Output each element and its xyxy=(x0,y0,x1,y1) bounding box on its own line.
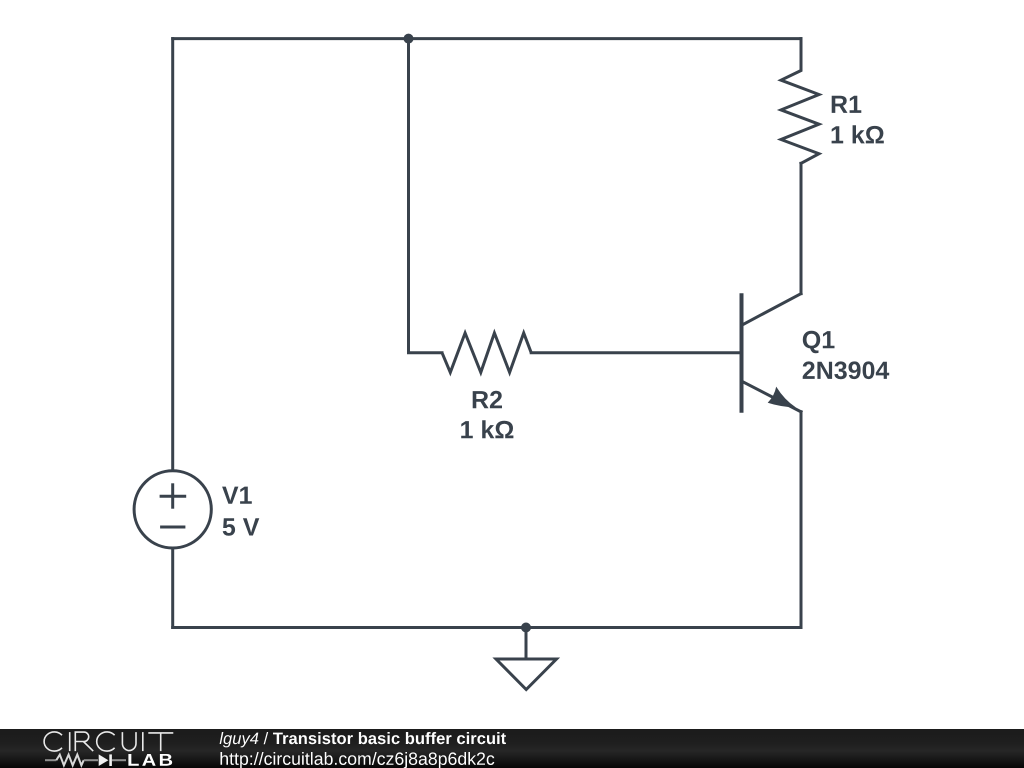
wire ground stub xyxy=(525,628,528,659)
footer url xyxy=(221,752,495,768)
wire bottom horizontal xyxy=(173,626,801,629)
label V1 value 5 V xyxy=(223,518,260,535)
voltage source V1 circle xyxy=(134,471,211,548)
label Q1 part number 2N3904 xyxy=(803,361,890,379)
wire vertical branch from top node down to R2 xyxy=(409,39,443,353)
label R1 xyxy=(832,96,862,113)
transistor Q1 base bar xyxy=(740,293,744,413)
label R2 value 1 kOhm xyxy=(461,420,513,438)
label Q1 xyxy=(803,331,835,353)
wire top-right horizontal segment xyxy=(409,37,802,40)
label R2 xyxy=(473,391,502,409)
logo doodle diode cathode bar xyxy=(109,754,112,766)
footer circuit title xyxy=(273,732,506,744)
transistor Q1 emitter arrowhead xyxy=(768,387,796,408)
footer separator slash xyxy=(264,732,269,744)
logo doodle diode triangle xyxy=(99,754,109,766)
ground symbol triangle xyxy=(496,659,557,690)
footer bar background xyxy=(0,729,1024,768)
node junction dot at top xyxy=(404,34,414,44)
transistor Q1 collector diagonal xyxy=(742,294,802,326)
logo word CIRCUIT (thin stroked letters) xyxy=(44,732,173,751)
wire left vertical lower from V1 to bottom xyxy=(171,548,174,627)
logo LAB text xyxy=(128,754,172,766)
V1 plus sign xyxy=(160,483,187,508)
footer author lguy4 xyxy=(220,732,259,747)
wire emitter vertical down to bottom xyxy=(800,412,803,628)
node junction dot at ground xyxy=(521,623,531,633)
wire from R2 to Q1 base xyxy=(531,351,741,354)
label R1 value 1 kOhm xyxy=(832,125,884,143)
logo doodle resistor zigzag and wire xyxy=(45,755,126,766)
label V1 xyxy=(222,487,252,504)
V1 minus sign xyxy=(160,526,185,529)
transistor Q1 emitter diagonal xyxy=(742,381,802,412)
wire left vertical upper from top to V1 xyxy=(171,39,174,471)
resistor R1 zigzag body with top lead xyxy=(781,39,819,164)
resistor R2 zigzag body xyxy=(442,333,531,372)
wire top-left horizontal segment xyxy=(173,37,409,40)
wire collector vertical up to R1 xyxy=(800,163,803,293)
